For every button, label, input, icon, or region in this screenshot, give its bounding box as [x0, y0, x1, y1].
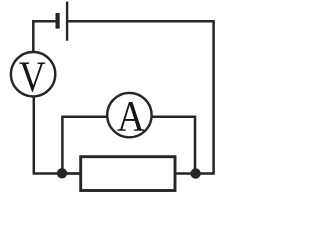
wire: top-left lead from left rail corner to battery negative plate [33, 21, 56, 52]
node B junction dot [190, 168, 200, 178]
resistor R1 (rectangle) [81, 157, 175, 191]
wire: left rail upper segment into voltmeter [32, 51, 35, 53]
wire: left rail lower segment from voltmeter to bottom-left corner then right to node A [34, 97, 80, 174]
voltmeter U1 (circle) [11, 52, 55, 96]
wire: ammeter right lead over to right branch and down to node B [152, 117, 196, 171]
wire: branch from node A up to ammeter left lead [62, 117, 107, 173]
battery cell: short (negative) plate [55, 13, 59, 29]
wire: resistor right terminal to node B [175, 172, 196, 175]
svg-text:V: V [19, 52, 46, 100]
wire: node A to resistor left terminal [62, 172, 81, 175]
wire: top lead from battery positive plate to right rail, down right rail to bottom-right corner, left to node B [68, 21, 213, 173]
svg-text:A: A [117, 91, 145, 140]
node A junction dot [57, 168, 67, 178]
battery cell: long (positive) plate [66, 2, 68, 41]
ammeter U2 (circle) [107, 93, 151, 137]
